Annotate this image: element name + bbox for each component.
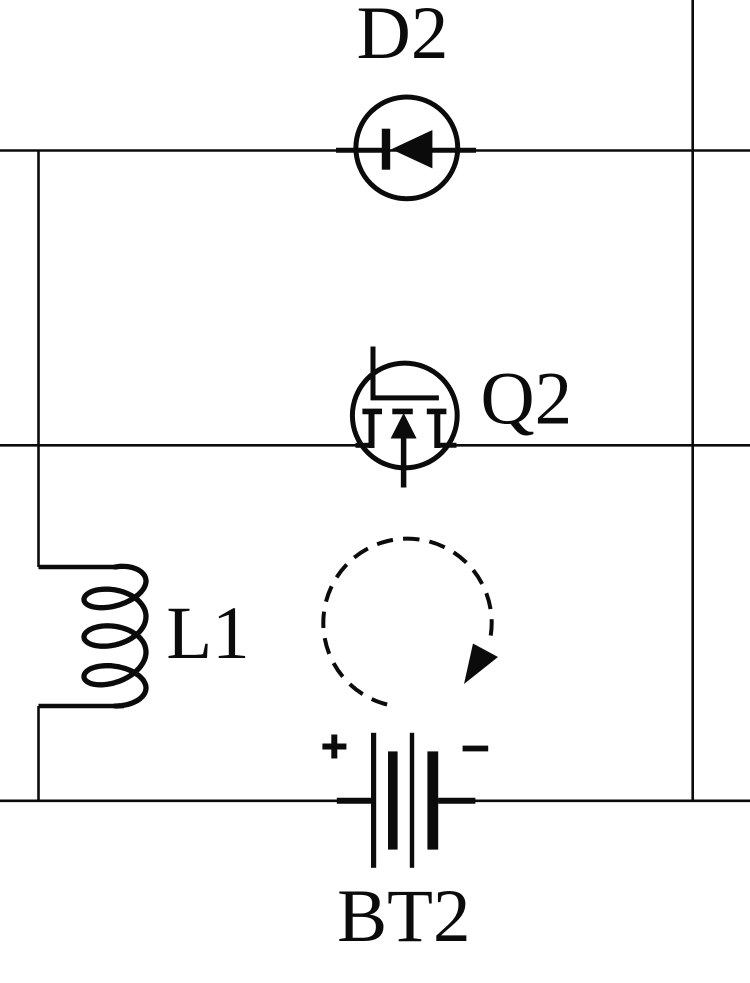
svg-text:L1: L1 (166, 592, 249, 675)
svg-text:D2: D2 (357, 0, 449, 75)
svg-text:BT2: BT2 (337, 875, 470, 958)
svg-text:Q2: Q2 (480, 358, 572, 441)
